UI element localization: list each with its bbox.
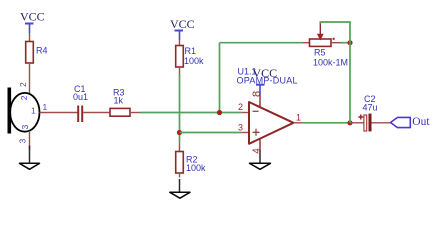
wire feedback from pin2 node up bbox=[219, 43, 221, 113]
op-amp U1.1 bbox=[237, 67, 302, 164]
svg-text:100k: 100k bbox=[184, 56, 204, 66]
svg-text:3: 3 bbox=[18, 139, 28, 144]
wire R2 to ground bbox=[179, 173, 181, 178]
svg-text:47u: 47u bbox=[363, 103, 378, 113]
wire microphone pin 1 to C1 bbox=[40, 112, 78, 114]
svg-text:VCC: VCC bbox=[20, 10, 45, 24]
junction node R5 right / wiper bbox=[347, 40, 352, 45]
wire microphone pin 3 to ground bbox=[29, 131, 31, 150]
resistor R3 bbox=[110, 88, 130, 117]
power VCC (op-amp pin 8) bbox=[253, 66, 278, 95]
wire R3 pin stub right bbox=[130, 112, 140, 114]
wire divider to op-amp pin 3 (net) bbox=[180, 132, 242, 134]
junction node pin2/feedback bbox=[217, 110, 222, 115]
svg-text:3: 3 bbox=[20, 125, 30, 130]
svg-text:2: 2 bbox=[19, 95, 29, 100]
wire VCC to R1 bbox=[179, 40, 181, 46]
junction node divider to pin 3 bbox=[177, 130, 182, 135]
svg-text:2: 2 bbox=[238, 102, 243, 112]
wire R5 right pin stub bbox=[331, 42, 341, 44]
capacitor C1 bbox=[73, 84, 88, 122]
svg-text:VCC: VCC bbox=[253, 66, 278, 80]
svg-text:3: 3 bbox=[238, 123, 243, 133]
wire R1 to R2 (net, crosses signal wire) bbox=[179, 75, 181, 143]
svg-text:R4: R4 bbox=[36, 46, 48, 56]
wire output to C2 (net) bbox=[303, 122, 351, 124]
svg-text:2: 2 bbox=[18, 82, 28, 87]
power VCC (left) bbox=[20, 10, 45, 34]
power VCC (middle) bbox=[170, 17, 195, 40]
resistor R1 bbox=[176, 46, 204, 68]
wire op-amp pin 2 stub bbox=[241, 112, 249, 114]
wire wiper bracket top bbox=[320, 22, 350, 43]
ground (under op-amp pin 4) bbox=[250, 163, 271, 169]
resistor R5 (potentiometer) bbox=[310, 24, 349, 68]
svg-text:100k: 100k bbox=[186, 163, 206, 173]
svg-text:0u1: 0u1 bbox=[73, 92, 88, 102]
svg-text:1: 1 bbox=[31, 106, 36, 116]
wire R3 to op-amp pin 2 (net) bbox=[140, 112, 241, 114]
microphone bbox=[8, 82, 48, 144]
svg-text:R1: R1 bbox=[185, 46, 197, 56]
svg-text:VCC: VCC bbox=[170, 17, 195, 31]
svg-text:R5: R5 bbox=[314, 48, 326, 58]
ground (under microphone) bbox=[19, 163, 39, 169]
wire R5 left pin stub bbox=[303, 42, 310, 44]
wire C1 to R3 bbox=[83, 112, 110, 114]
junction node output/feedback bbox=[347, 120, 352, 125]
svg-text:1k: 1k bbox=[114, 96, 124, 106]
wire R2 pin stub up bbox=[179, 143, 181, 152]
wire R5 to feedback node (net) bbox=[341, 42, 350, 44]
resistor R2 bbox=[176, 152, 206, 174]
capacitor C2 (polarized) bbox=[358, 94, 377, 131]
wire VCC to R4 bbox=[29, 33, 31, 42]
wire op-amp output stub bbox=[294, 122, 303, 124]
svg-text:1: 1 bbox=[43, 102, 48, 112]
wire op-amp pin 3 stub bbox=[241, 132, 249, 134]
wire feedback horizontal to R5 (net) bbox=[220, 42, 304, 44]
wire R4 to microphone pin 2 bbox=[29, 63, 31, 94]
svg-text:100k-1M: 100k-1M bbox=[313, 58, 348, 68]
wire C2 to Out port bbox=[372, 122, 391, 124]
svg-text:Out: Out bbox=[412, 116, 430, 128]
wire feedback node down to output bbox=[349, 43, 351, 123]
ground (under R2) bbox=[170, 192, 190, 198]
resistor R4 bbox=[26, 42, 48, 64]
svg-text:1: 1 bbox=[296, 113, 301, 123]
port Out bbox=[391, 116, 431, 128]
svg-text:8: 8 bbox=[251, 91, 263, 97]
wire junction to C2 bbox=[350, 122, 365, 124]
wire R1 pin stub down bbox=[179, 67, 181, 75]
